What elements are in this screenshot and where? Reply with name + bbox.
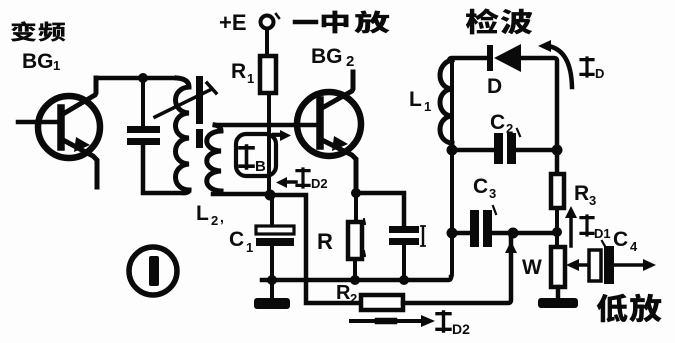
wire emitter node right: [356, 193, 404, 226]
label ID2 (near BG2): [297, 169, 309, 187]
label 中 (of 一中放): [322, 11, 349, 34]
wire C3 to node: [492, 231, 553, 236]
svg-text:C: C: [473, 175, 488, 198]
wire R bottom: [353, 259, 357, 280]
node top rail: [138, 73, 148, 83]
BG1 collector: [63, 78, 96, 114]
label 频 (of 变频): [38, 22, 65, 42]
svg-text:R: R: [336, 282, 351, 304]
wire C2 to right column: [516, 148, 557, 153]
svg-text:C: C: [490, 111, 505, 134]
diode D cathode bar: [487, 45, 493, 71]
svg-text:R: R: [317, 229, 333, 254]
label ID1: [581, 216, 593, 235]
BG2 collector: [322, 72, 353, 108]
wire diode to right column: [521, 58, 557, 174]
svg-text:1: 1: [424, 99, 431, 114]
svg-text:3: 3: [589, 193, 596, 208]
svg-text:D2: D2: [311, 176, 328, 191]
svg-text:1: 1: [246, 240, 253, 255]
svg-text:3: 3: [489, 186, 496, 201]
svg-text:1: 1: [53, 58, 60, 73]
L1 side wire: [450, 58, 454, 150]
W wiper arrow: [576, 263, 589, 267]
node BG2 emitter: [351, 188, 361, 198]
node R3/W: [552, 227, 562, 237]
label 一 (dash of 一中放 first IF amp): [295, 20, 316, 25]
IB loop arrow: [236, 134, 276, 176]
bypass capacitor top plate: [389, 226, 419, 233]
svg-text:+E: +E: [219, 10, 247, 35]
wire R2 right: [403, 236, 511, 303]
node L1 bottom: [447, 145, 458, 156]
svg-text:2: 2: [346, 53, 354, 70]
wire node down to C1: [270, 195, 274, 227]
wire collector top rail: [96, 76, 177, 81]
label 波 (of 检波): [501, 9, 533, 35]
wire node to R2 branch: [270, 195, 361, 303]
wire tank cap to bottom: [143, 145, 184, 193]
svg-text:4: 4: [630, 239, 638, 254]
wire W to ground: [556, 287, 561, 298]
node cap bottom: [399, 275, 409, 285]
wire C1 to ground: [270, 246, 274, 298]
transformer core bar upper: [196, 76, 203, 124]
tuning arrow: [155, 89, 212, 117]
supply terminal +E: [261, 16, 274, 29]
wire coil bottom: [184, 190, 189, 193]
BG2 emitter arrow: [332, 136, 348, 151]
oscillator coil (primary): [176, 78, 190, 190]
svg-text:L: L: [409, 88, 422, 111]
svg-text:,: ,: [220, 209, 224, 225]
transistor BG1: [38, 96, 100, 158]
capacitor C4 right plate: [604, 246, 614, 284]
capacitor C2 right plate: [507, 133, 516, 164]
wire node to tank cap: [141, 78, 145, 126]
tank capacitor bottom plate: [127, 138, 160, 145]
resistor R2: [361, 295, 403, 310]
wire R3 to W: [555, 208, 559, 247]
transistor BG2: [297, 92, 361, 156]
ID2 arrow (pointing left): [283, 180, 296, 184]
svg-text:BG: BG: [22, 50, 54, 73]
wire L1 node down: [451, 150, 452, 277]
ground under W: [538, 298, 578, 308]
svg-text:C: C: [613, 228, 628, 251]
label 检 (of 检波 detector): [466, 8, 499, 34]
output arrow to audio amp: [614, 263, 644, 267]
wire +E to R1: [265, 29, 269, 56]
potentiometer W: [551, 247, 565, 287]
ID1 arrow: [569, 215, 573, 246]
svg-text:2: 2: [211, 213, 218, 228]
label ID2 (bottom): [437, 312, 450, 331]
label 低 (of 低放 audio amp): [597, 294, 628, 323]
wire R1 to node: [267, 93, 271, 195]
capacitor C2 left plate: [494, 133, 503, 164]
ground rail wire: [262, 277, 451, 280]
wire to C2: [452, 148, 494, 153]
label IB (base current): [240, 146, 253, 168]
node C1 bottom: [267, 275, 277, 285]
svg-text:D2: D2: [452, 321, 470, 337]
wire L2 top to BG2 base: [215, 123, 317, 128]
capacitor C4 left plate: [589, 250, 601, 281]
node C3 left: [447, 228, 458, 239]
tank capacitor top plate: [127, 126, 160, 133]
ground under C1: [254, 298, 290, 309]
diode D triangle: [494, 44, 521, 72]
svg-text:B: B: [255, 158, 266, 175]
transformer core bar lower: [196, 129, 203, 148]
node AF output: [508, 228, 519, 239]
wire bypass cap bottom: [402, 245, 406, 280]
svg-text:R: R: [574, 182, 589, 205]
capacitor C1 top plate: [256, 226, 294, 234]
label 变 (of 变频 frequency-converter): [11, 21, 36, 41]
capacitor C3 left plate: [470, 210, 479, 247]
coil L1: [440, 60, 452, 143]
resistor R1: [260, 56, 276, 93]
BG1 emitter arrow: [74, 137, 90, 152]
BG2 base bar: [316, 100, 324, 146]
capacitor C3 right plate: [483, 210, 492, 247]
svg-text:D1: D1: [594, 226, 611, 241]
wire to C3: [452, 231, 470, 236]
capacitor C1 bottom plate: [256, 238, 294, 246]
svg-text:D: D: [487, 75, 502, 98]
wire L2 bottom to node: [213, 191, 271, 194]
BG1 base bar: [57, 108, 65, 147]
BG1 base wire: [18, 120, 58, 125]
ID2 bottom arrow: [351, 319, 425, 323]
label 放 (of 低放): [629, 294, 661, 323]
wire L1 top / diode anode: [449, 58, 487, 61]
resistor R: [348, 222, 362, 259]
svg-text:1: 1: [247, 71, 254, 86]
figure number 1 circled: [129, 247, 177, 295]
label ID (detector current): [581, 58, 593, 76]
wire emitter node to R: [354, 193, 358, 222]
svg-text:R: R: [231, 60, 246, 83]
svg-text:W: W: [522, 256, 542, 279]
svg-text:D: D: [595, 66, 604, 81]
node R bottom: [350, 275, 360, 285]
resistor R3: [551, 174, 564, 208]
svg-text:C: C: [229, 228, 244, 251]
svg-text:BG: BG: [311, 45, 343, 68]
node right column: [552, 145, 563, 156]
svg-text:L: L: [196, 202, 209, 225]
node base bias: [265, 190, 276, 201]
BG1 emitter: [63, 140, 97, 187]
label 放 (of 一中放): [354, 10, 389, 33]
bypass capacitor bottom plate: [389, 238, 419, 245]
BG2 emitter: [322, 140, 356, 193]
coil L2 (secondary): [207, 125, 221, 191]
arrowhead up on wire: [505, 241, 517, 253]
Ip curved arrow: [548, 46, 572, 87]
